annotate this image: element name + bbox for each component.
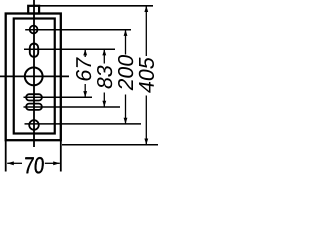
dimension label 405 [139,57,154,92]
horizontal slot upper [26,94,42,100]
dimension line 405 [144,6,148,145]
extension line tab top to 405 [29,5,154,7]
vertical center line [33,0,35,147]
extension line vertical slot to 67/83 [24,48,115,50]
vertical slot [30,44,38,57]
extension line top circle to 200 [25,29,131,31]
center line large hole [0,75,69,77]
outer plate outline [6,14,61,141]
dimension label 83 [97,66,112,89]
large center hole [25,68,43,86]
extension line 70 right [60,140,62,172]
dimension label 200 [118,55,133,90]
horizontal slot lower [26,104,42,110]
dimension line 200 [124,30,128,124]
dimension line 70 [7,161,60,165]
hole circle bottom [29,120,39,130]
extension line upper slot to 67 [24,96,93,98]
dimension label 67 [76,57,91,80]
dimension line 67 [83,49,87,97]
dimension label 70 [25,157,43,173]
hole circle top [30,26,38,34]
extension line lower slot to 83 [24,106,121,108]
mounting tab on top [28,6,39,14]
extension line 70 left [5,140,7,172]
extension line bottom circle to 200 [25,123,142,125]
dimension line 83 [102,49,106,107]
inner panel outline [14,19,55,134]
extension line bottom to 405 [62,144,158,146]
